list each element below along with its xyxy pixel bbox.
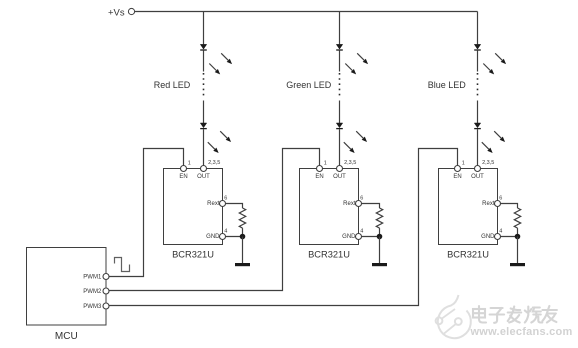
wire: Green LED cathode to OUT pin [339, 129, 341, 165]
svg-text:Red LED: Red LED [154, 80, 191, 90]
wire: LED string continuation (dotted), Green LED [339, 51, 341, 72]
svg-text:2,3,5: 2,3,5 [344, 160, 356, 166]
light emission arrows (bottom LED, Green LED) [356, 131, 363, 138]
ground symbol (U3) [510, 263, 525, 266]
wire: node to ground [517, 237, 519, 264]
watermark: elecfans logo [436, 295, 471, 338]
wire: LED string continuation (dotted), Red LED [203, 51, 205, 72]
ground symbol (U2) [372, 263, 387, 266]
pin PWM2 terminal (MCU) [103, 288, 109, 294]
svg-text:BCR321U: BCR321U [172, 249, 214, 259]
resistor Rext (U3) [514, 208, 520, 228]
pin 1 EN terminal (U2) [317, 166, 323, 172]
LED Green LED string: top diode [336, 44, 342, 49]
svg-text:GND: GND [206, 234, 220, 240]
svg-text:Blue LED: Blue LED [428, 80, 467, 90]
wire: node to ground [242, 237, 244, 264]
svg-text:PWM2: PWM2 [83, 289, 102, 295]
wire: rail to Green LED anode [339, 12, 341, 45]
svg-text:4: 4 [360, 229, 363, 235]
wire: node to ground [379, 237, 381, 264]
svg-text:EN: EN [315, 174, 323, 180]
pin PWM1 terminal (MCU) [103, 274, 109, 280]
svg-text:OUT: OUT [197, 174, 210, 180]
svg-text:BCR321U: BCR321U [308, 249, 350, 259]
svg-text:1: 1 [188, 161, 191, 167]
wire: PWM to EN pin (U3) [109, 149, 457, 306]
svg-text:2,3,5: 2,3,5 [208, 160, 220, 166]
svg-text:Green LED: Green LED [286, 80, 332, 90]
wire: GND pin 4 to node [226, 236, 243, 238]
resistor Rext (U1) [239, 208, 245, 228]
light emission arrows (bottom LED, Red LED) [220, 131, 227, 138]
BCR321U U3 body [439, 169, 498, 245]
svg-text:Rext: Rext [482, 201, 495, 207]
light emission arrows (top LED, Green LED) [357, 53, 364, 60]
svg-text:GND: GND [481, 234, 495, 240]
wire: GND pin 4 to node [362, 236, 380, 238]
svg-text:1: 1 [324, 161, 327, 167]
wire: Rext pin 6 to resistor [226, 204, 243, 209]
LED Red LED string: top diode [200, 44, 206, 49]
wire: resistor to GND node [379, 228, 381, 236]
light emission arrows (top LED, Blue LED) [495, 53, 502, 60]
wire: GND pin 4 to node [501, 236, 518, 238]
pin 4 GND terminal (U2) [356, 234, 362, 240]
svg-text:1: 1 [462, 161, 465, 167]
wire: Rext pin 6 to resistor [501, 204, 518, 209]
pin 6 Rext terminal (U3) [495, 201, 501, 207]
svg-text:PWM3: PWM3 [83, 304, 102, 310]
pin 2,3,5 OUT terminal (U3) [475, 166, 481, 172]
LED Red LED string: bottom diode [200, 123, 206, 128]
wire: resistor to GND node [517, 228, 519, 236]
svg-text:OUT: OUT [333, 174, 346, 180]
ground symbol (U1) [235, 263, 250, 266]
svg-text:6: 6 [224, 196, 227, 202]
svg-text:MCU: MCU [55, 331, 78, 342]
svg-text:6: 6 [499, 196, 502, 202]
wire: Rext pin 6 to resistor [362, 204, 380, 209]
pin 4 GND terminal (U3) [495, 234, 501, 240]
wire: LED string continuation (dotted), Blue LED [477, 51, 479, 72]
pin PWM3 terminal (MCU) [103, 303, 109, 309]
BCR321U U2 body [300, 169, 359, 245]
wire: +Vs supply rail [135, 11, 478, 13]
svg-text:2,3,5: 2,3,5 [482, 160, 494, 166]
watermark: elecfans chinese text [473, 306, 557, 323]
light emission arrows (bottom LED, Blue LED) [494, 131, 501, 138]
wire: PWM to EN pin (U1) [109, 149, 183, 277]
pin 1 EN terminal (U1) [181, 166, 187, 172]
pin 6 Rext terminal (U1) [220, 201, 226, 207]
svg-text:4: 4 [224, 229, 227, 235]
svg-text:OUT: OUT [471, 174, 484, 180]
svg-text:+Vs: +Vs [108, 7, 125, 18]
LED Blue LED string: top diode [474, 44, 480, 49]
svg-text:4: 4 [499, 229, 502, 235]
MCU body [27, 248, 107, 326]
svg-text:BCR321U: BCR321U [447, 249, 489, 259]
wire: PWM to EN pin (U2) [109, 149, 319, 291]
LED Blue LED string: bottom diode [474, 123, 480, 128]
wire: rail to Red LED anode [203, 12, 205, 45]
junction node (U3 GND/Rext) [515, 234, 521, 240]
svg-text:www.elecfans.com: www.elecfans.com [470, 326, 573, 338]
svg-text:EN: EN [179, 174, 187, 180]
wire: Blue LED cathode to OUT pin [477, 129, 479, 165]
light emission arrows (top LED, Red LED) [221, 53, 228, 60]
LED Green LED string: bottom diode [336, 123, 342, 128]
wire: resistor to GND node [242, 228, 244, 236]
junction node (U2 GND/Rext) [377, 234, 383, 240]
svg-text:Rext: Rext [343, 201, 356, 207]
pin 6 Rext terminal (U2) [356, 201, 362, 207]
supply terminal +Vs [128, 8, 134, 14]
pin 2,3,5 OUT terminal (U2) [337, 166, 343, 172]
svg-text:PWM1: PWM1 [83, 275, 102, 281]
svg-text:GND: GND [342, 234, 356, 240]
wire: Red LED cathode to OUT pin [203, 129, 205, 165]
junction node (U1 GND/Rext) [240, 234, 246, 240]
PWM waveform symbol [115, 258, 130, 272]
pin 1 EN terminal (U3) [455, 166, 461, 172]
pin 2,3,5 OUT terminal (U1) [201, 166, 207, 172]
resistor Rext (U2) [376, 208, 382, 228]
svg-text:EN: EN [453, 174, 461, 180]
pin 4 GND terminal (U1) [220, 234, 226, 240]
svg-text:6: 6 [360, 196, 363, 202]
wire: rail to Blue LED anode [477, 12, 479, 45]
BCR321U U1 body [164, 169, 223, 245]
svg-text:Rext: Rext [207, 201, 220, 207]
